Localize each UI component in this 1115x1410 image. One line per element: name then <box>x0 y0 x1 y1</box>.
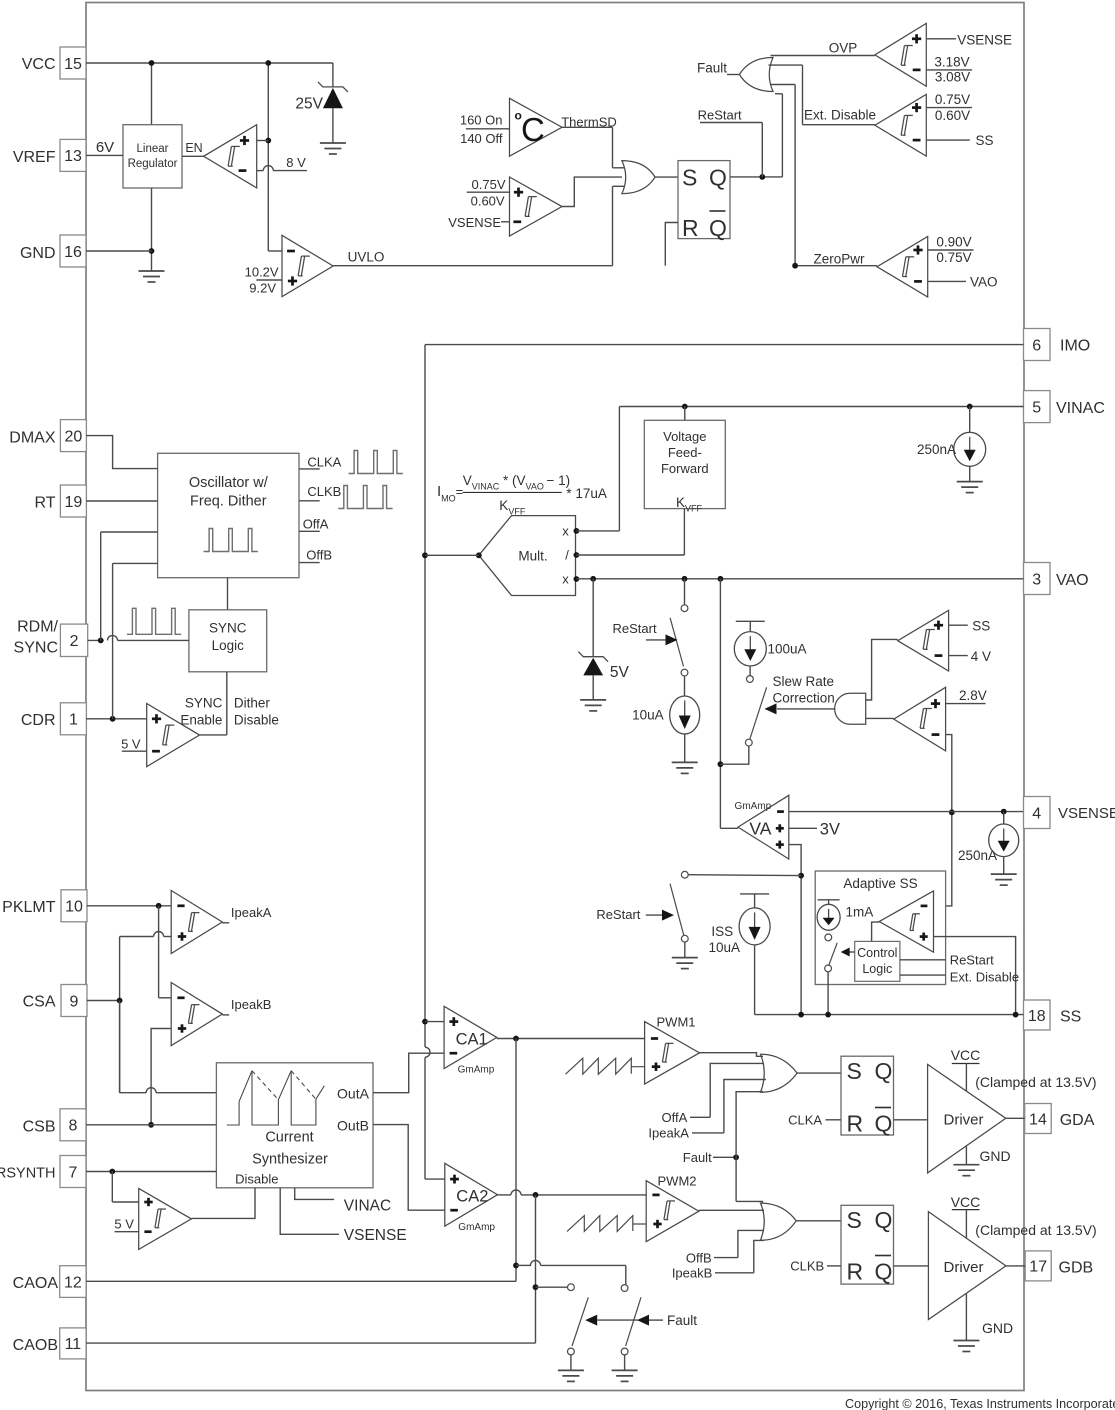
current source 250nA VINAC <box>917 407 986 482</box>
svg-text:3V: 3V <box>820 821 840 839</box>
OR gate fault-out <box>739 58 773 92</box>
waveform sawtooth PWM1 <box>566 1058 645 1074</box>
ground under regulator <box>139 271 165 282</box>
wire CLKB to R2 <box>790 1259 841 1274</box>
current source 1mA <box>817 900 873 941</box>
ground fault A <box>558 1370 584 1381</box>
svg-text:CAOB: CAOB <box>13 1337 58 1354</box>
wire VCC net <box>86 60 333 251</box>
svg-text:13: 13 <box>64 148 82 165</box>
wire IpeakB plus <box>148 1029 171 1128</box>
wire CAOA net <box>86 1280 516 1282</box>
svg-text:Disable: Disable <box>234 713 279 728</box>
wire Fault label <box>697 61 739 76</box>
svg-text:VSENSE: VSENSE <box>448 215 501 230</box>
wire ZeroPwr VAO <box>928 275 998 290</box>
svg-text:EN: EN <box>185 141 202 155</box>
wire control ReStart <box>900 953 994 968</box>
wire KVFF to mult <box>576 509 684 555</box>
adaptive soft start block <box>815 871 945 985</box>
svg-text:Fault: Fault <box>683 1150 712 1165</box>
copyright note <box>845 1397 1115 1410</box>
wire CLKB stub <box>299 484 341 501</box>
svg-text:0.60V: 0.60V <box>935 108 970 123</box>
svg-text:2.8V: 2.8V <box>959 688 987 703</box>
svg-text:1: 1 <box>69 712 78 729</box>
waveform synthesizer <box>227 1071 324 1125</box>
wire OutA to CA1 <box>373 1053 444 1093</box>
svg-text:8: 8 <box>69 1118 78 1135</box>
wire ZeroPwr to OR <box>770 85 795 266</box>
wire AND out arrow <box>765 703 835 714</box>
svg-text:GDB: GDB <box>1059 1260 1094 1277</box>
formula Imo <box>437 473 607 517</box>
comparator PWM1 <box>645 1015 700 1085</box>
pin 14 GDA <box>1025 1104 1095 1134</box>
junction VCC-EN+ <box>265 138 271 144</box>
label 5V rsynth <box>114 1216 138 1231</box>
OR gate PWM1 <box>761 1054 798 1092</box>
wire IpeakA to OR <box>648 1080 766 1141</box>
zener 5V <box>578 579 629 700</box>
svg-text:Voltage: Voltage <box>663 429 706 444</box>
wire GND pin <box>86 250 152 252</box>
pin 17 GDB <box>1025 1251 1093 1281</box>
current source 10uA <box>632 676 700 762</box>
label 2.8V <box>946 688 987 704</box>
svg-text:9: 9 <box>70 993 79 1010</box>
svg-text:GmAmp: GmAmp <box>458 1222 495 1233</box>
svg-text:Logic: Logic <box>862 962 892 976</box>
svg-text:1mA: 1mA <box>846 905 874 920</box>
wire PWM2 to OR <box>699 1209 764 1211</box>
pin 12 CAOA <box>13 1266 86 1298</box>
AND gate slew <box>835 693 866 724</box>
wire CA2 out <box>498 1190 647 1198</box>
ground driver A <box>953 1165 979 1176</box>
svg-text:Q: Q <box>709 215 727 241</box>
wire OffA to OR <box>662 1063 764 1125</box>
wire CLKA stub <box>299 454 342 469</box>
svg-text:VINAC: VINAC <box>344 1198 391 1215</box>
svg-text:OutA: OutA <box>337 1086 370 1102</box>
svg-text:ThermSD: ThermSD <box>561 115 617 130</box>
svg-text:10uA: 10uA <box>708 940 740 955</box>
svg-text:140 Off: 140 Off <box>460 131 503 146</box>
wire ExtDisable to OR <box>769 65 877 125</box>
SYNC logic block <box>189 610 267 672</box>
wire OVP to OR <box>771 41 875 56</box>
svg-text:5 V: 5 V <box>121 737 141 752</box>
pin 15 VCC <box>22 47 86 79</box>
svg-text:RSYNTH: RSYNTH <box>0 1166 56 1182</box>
svg-text:25V: 25V <box>295 96 323 113</box>
wire VSENSE comp output <box>562 177 622 206</box>
wire CSA <box>87 998 123 1093</box>
wire Q1 to driver <box>894 1119 928 1121</box>
pin 9 CSA <box>23 985 87 1017</box>
comparator EN <box>204 125 257 188</box>
wire OR to S <box>655 176 678 178</box>
svg-text:OutB: OutB <box>337 1118 369 1134</box>
wire control ExtDisable <box>900 970 1019 985</box>
svg-text:VAO: VAO <box>1056 572 1089 589</box>
zener 25V <box>295 63 347 143</box>
svg-text:OffA: OffA <box>303 517 329 532</box>
svg-text:* 17uA: * 17uA <box>566 486 607 501</box>
svg-text:PKLMT: PKLMT <box>2 899 56 916</box>
svg-text:8 V: 8 V <box>286 155 306 170</box>
svg-text:Freq. Dither: Freq. Dither <box>190 494 267 510</box>
wire OVP VSENSE <box>926 32 1012 47</box>
wire Q2 to driver <box>894 1265 929 1267</box>
svg-text:GmAmp: GmAmp <box>735 801 772 812</box>
comparator thermal shutdown <box>510 98 563 156</box>
current source 250nA VSENSE <box>958 809 1019 874</box>
wire PKLMT to IpeakB <box>158 906 160 998</box>
svg-text:9.2V: 9.2V <box>249 281 276 296</box>
comparator OVP <box>875 23 926 86</box>
wire VAO to VA <box>718 579 724 829</box>
wire VA output <box>720 827 738 829</box>
svg-text:Copyright © 2016, Texas Instru: Copyright © 2016, Texas Instruments Inco… <box>845 1397 1115 1410</box>
svg-text:15: 15 <box>64 56 82 73</box>
ground under 250nA VINAC <box>957 482 983 493</box>
svg-text:OffB: OffB <box>306 547 332 562</box>
pin 6 IMO <box>1024 329 1091 361</box>
svg-text:Enable: Enable <box>180 713 222 728</box>
label 0.75V 0.60V right <box>926 92 972 123</box>
comparator PWM2 <box>646 1174 699 1242</box>
wire CLKA to R1 <box>788 1113 841 1128</box>
comparator RSYNTH 5V <box>139 1188 192 1249</box>
svg-text:2: 2 <box>70 633 79 650</box>
control logic block <box>855 941 900 981</box>
svg-text:3.08V: 3.08V <box>935 70 970 85</box>
svg-text:GND: GND <box>20 245 56 262</box>
wire CSA to synthesizer <box>120 1088 217 1093</box>
label 3.18V 3.08V <box>926 54 972 84</box>
ground under ReStart SS <box>672 958 698 969</box>
wire 8V input <box>257 155 307 171</box>
driver B <box>928 1212 1006 1320</box>
svg-text:ReStart: ReStart <box>613 621 657 636</box>
svg-text:Driver: Driver <box>944 1112 984 1129</box>
svg-text:GDA: GDA <box>1060 1112 1095 1129</box>
svg-text:VINAC: VINAC <box>1056 400 1105 417</box>
wire OffB to OR <box>686 1230 764 1265</box>
svg-text:20: 20 <box>65 428 83 445</box>
comparator IpeakB <box>171 983 222 1046</box>
switch ReStart VAO <box>613 579 688 676</box>
pin 1 CDR <box>21 703 87 735</box>
svg-text:VCC: VCC <box>22 56 56 73</box>
wire osc to sync <box>227 578 229 610</box>
comparator ZeroPwr <box>877 237 928 298</box>
svg-text:IMO: IMO <box>1060 338 1090 355</box>
svg-text:IpeakB: IpeakB <box>672 1266 712 1281</box>
svg-text:5V: 5V <box>610 664 630 681</box>
pin 3 VAO <box>1024 563 1089 595</box>
wire CA1 out <box>497 1036 645 1042</box>
svg-text:IpeakA: IpeakA <box>231 905 272 920</box>
wire disable <box>191 1188 255 1219</box>
wire CAOB net <box>86 1342 535 1344</box>
svg-text:SYNC: SYNC <box>185 696 223 711</box>
comparator ExtDisable <box>875 94 926 156</box>
svg-text:S: S <box>682 165 697 191</box>
svg-text:IpeakB: IpeakB <box>231 997 271 1012</box>
svg-text:VA: VA <box>749 819 771 839</box>
svg-text:VCC: VCC <box>951 1194 981 1210</box>
comparator 2.8V <box>894 687 946 751</box>
switch 1mA <box>825 943 838 1015</box>
svg-text:10: 10 <box>65 899 83 916</box>
pin 8 CSB <box>23 1109 86 1141</box>
svg-text:Regulator: Regulator <box>128 158 178 170</box>
driver A <box>928 1064 1006 1173</box>
svg-text:CLKA: CLKA <box>307 454 341 469</box>
label clamped A <box>975 1074 1096 1090</box>
SR latch PWM1 <box>841 1056 894 1136</box>
svg-text:VCC: VCC <box>951 1047 981 1063</box>
wire DMAX <box>86 436 158 469</box>
svg-text:Mult.: Mult. <box>518 549 547 564</box>
svg-text:Q: Q <box>875 1259 893 1285</box>
svg-text:ReStart: ReStart <box>596 907 640 922</box>
svg-text:12: 12 <box>64 1274 82 1291</box>
svg-text:Logic: Logic <box>212 638 245 653</box>
pin 20 DMAX <box>9 420 86 452</box>
wire VREF 6V <box>86 139 123 156</box>
svg-text:CAOA: CAOA <box>13 1275 59 1292</box>
wire VA minus VSENSE <box>789 811 1024 813</box>
wire dither disable <box>180 672 279 735</box>
svg-text:16: 16 <box>64 244 82 261</box>
waveform CLKA <box>349 451 403 474</box>
OR gate PWM2 <box>761 1203 797 1240</box>
wire CDR <box>86 563 158 721</box>
wire VCC driver A <box>951 1047 981 1091</box>
svg-text:11: 11 <box>65 1336 82 1353</box>
oscillator block <box>158 453 299 577</box>
wire CSB <box>86 1124 216 1126</box>
svg-text:0.75V: 0.75V <box>935 92 970 107</box>
label 0.90V 0.75V <box>928 235 974 265</box>
wire latch R input <box>665 223 678 266</box>
svg-text:4 V: 4 V <box>971 649 991 664</box>
svg-text:/: / <box>565 548 569 563</box>
svg-text:5 V: 5 V <box>114 1216 134 1231</box>
pin 7 RSYNTH <box>0 1156 86 1188</box>
wire ExtDisable SS <box>926 133 993 148</box>
wire RDM/SYNC <box>88 532 189 643</box>
wire control arrow <box>841 948 855 957</box>
svg-text:GmAmp: GmAmp <box>458 1065 495 1076</box>
svg-text:Forward: Forward <box>661 461 709 476</box>
label VSENSE top <box>448 215 509 230</box>
svg-text:OVP: OVP <box>829 41 858 56</box>
amplifier CA2 <box>445 1163 498 1233</box>
wire ReStart top <box>698 108 763 177</box>
wire EN <box>182 141 204 156</box>
svg-text:(Clamped at 13.5V): (Clamped at 13.5V) <box>975 1222 1096 1238</box>
svg-text:160 On: 160 On <box>460 113 503 128</box>
OR gate fault-set <box>613 161 656 194</box>
wire IpeakB minus <box>159 997 172 999</box>
pin 5 VINAC <box>1024 391 1105 423</box>
label 5V cdr <box>121 737 147 752</box>
svg-text:C: C <box>521 111 545 148</box>
svg-text:VREF: VREF <box>13 149 56 166</box>
waveform sawtooth PWM2 <box>567 1216 646 1232</box>
svg-text:DMAX: DMAX <box>9 430 56 447</box>
SR latch fault <box>678 161 730 241</box>
wire PWM1 to OR <box>700 1053 764 1057</box>
svg-text:14: 14 <box>1029 1111 1047 1128</box>
wire PKLMT <box>87 903 172 909</box>
svg-text:SYNC: SYNC <box>14 640 58 657</box>
svg-text:6: 6 <box>1032 337 1041 354</box>
wire SS4V to AND <box>866 639 898 700</box>
svg-text:3.18V: 3.18V <box>934 54 969 69</box>
SR latch PWM2 <box>841 1205 894 1284</box>
linear regulator block <box>123 125 182 188</box>
svg-text:ReStart: ReStart <box>950 953 994 968</box>
svg-text:Adaptive SS: Adaptive SS <box>843 876 917 891</box>
wire EN+ input <box>257 140 269 142</box>
pin 11 CAOB <box>13 1328 86 1359</box>
wire OutB to CA2 <box>373 1125 445 1211</box>
wire SS label <box>949 619 991 634</box>
wire OffA stub <box>299 517 329 532</box>
switch slew rate <box>720 687 766 764</box>
wire VA plus lower <box>789 845 804 1015</box>
wire GND driver B <box>966 1294 1013 1341</box>
wire IpeakA out <box>222 905 271 923</box>
ground fault B <box>612 1370 638 1381</box>
svg-text:GND: GND <box>982 1320 1013 1336</box>
multiplier block <box>476 516 576 596</box>
svg-text:7: 7 <box>69 1164 78 1181</box>
svg-text:17: 17 <box>1029 1259 1047 1276</box>
svg-text:CA1: CA1 <box>456 1031 488 1049</box>
switch fault A <box>568 1284 589 1371</box>
svg-text:ZeroPwr: ZeroPwr <box>813 251 865 266</box>
wire 2.8V minus net <box>934 735 955 906</box>
label slew rate correction <box>773 674 835 706</box>
svg-text:x: x <box>562 524 569 539</box>
wire RSYNTH comp plus <box>112 1172 138 1203</box>
ground under zener 25V <box>320 143 346 154</box>
pin 4 VSENSE <box>1024 797 1115 829</box>
svg-text:4: 4 <box>1032 805 1041 822</box>
wire RT <box>86 500 158 502</box>
svg-text:(Clamped at 13.5V): (Clamped at 13.5V) <box>975 1074 1096 1090</box>
svg-text:VAO: VAO <box>970 275 998 290</box>
svg-text:Q: Q <box>875 1058 893 1084</box>
svg-text:SS: SS <box>972 619 990 634</box>
label mult ports <box>562 524 579 587</box>
wire Fault to OR1 <box>683 1092 763 1165</box>
wire UVLO output <box>333 186 612 265</box>
svg-text:Oscillator w/: Oscillator w/ <box>189 475 269 491</box>
svg-text:CSB: CSB <box>23 1119 56 1136</box>
wire adaptive plus <box>934 937 1016 1015</box>
svg-text:SYNC: SYNC <box>209 621 247 636</box>
label 0.75V 0.60V top <box>467 177 510 209</box>
wire IpeakA plus <box>120 932 172 1093</box>
svg-text:Ext. Disable: Ext. Disable <box>804 108 876 123</box>
pin 2 RDM/SYNC <box>14 619 88 657</box>
svg-text:Linear: Linear <box>137 143 169 155</box>
svg-text:250nA: 250nA <box>917 442 956 457</box>
pin 10 PKLMT <box>2 890 87 922</box>
wire ZeroPwr line <box>792 251 877 268</box>
comparator UVLO <box>282 235 333 296</box>
wire CA2 to CAOB <box>533 1195 539 1343</box>
svg-text:VSENSE: VSENSE <box>344 1227 407 1244</box>
svg-text:Current: Current <box>265 1130 313 1146</box>
wire 2.8V comp to AND <box>866 717 894 719</box>
ground under zener 5V <box>580 700 606 711</box>
svg-text:0.90V: 0.90V <box>936 235 971 250</box>
svg-text:10.2V: 10.2V <box>245 264 279 279</box>
svg-text:Dither: Dither <box>234 696 271 711</box>
svg-text:CLKB: CLKB <box>790 1259 824 1274</box>
wire VCC driver B <box>951 1194 981 1238</box>
svg-text:S: S <box>847 1207 862 1233</box>
ground driver B <box>953 1341 979 1352</box>
svg-text:OffB: OffB <box>686 1251 712 1266</box>
wire RSYNTH <box>86 1169 216 1175</box>
comparator SS 4V <box>898 610 949 671</box>
ground under 10uA <box>672 762 698 773</box>
wire OffB stub <box>299 547 332 562</box>
switch ReStart SS <box>596 871 688 957</box>
pin 19 RT <box>34 485 86 517</box>
wire GND driver A <box>966 1146 1010 1165</box>
svg-text:CSA: CSA <box>23 994 56 1011</box>
wire CA1 branch to switch <box>516 1260 626 1284</box>
wire 4V label <box>949 649 991 664</box>
voltage feed-forward block <box>644 420 725 513</box>
wire GDA <box>1006 1117 1025 1119</box>
svg-text:RDM/: RDM/ <box>17 619 58 636</box>
svg-text:VSENSE: VSENSE <box>957 32 1012 47</box>
svg-text:10uA: 10uA <box>632 708 664 723</box>
comparator adaptive SS <box>879 891 933 952</box>
svg-text:100uA: 100uA <box>768 642 807 657</box>
label 160On 140Off <box>460 113 510 146</box>
svg-text:RT: RT <box>34 495 55 512</box>
svg-text:CLKA: CLKA <box>788 1113 822 1128</box>
wire CA1 plus <box>425 1021 444 1023</box>
svg-text:19: 19 <box>65 494 83 511</box>
pin 18 SS <box>1024 1000 1082 1030</box>
svg-text:5: 5 <box>1032 399 1041 416</box>
svg-text:Correction: Correction <box>773 691 835 706</box>
svg-text:PWM1: PWM1 <box>657 1015 696 1030</box>
svg-text:Driver: Driver <box>944 1259 984 1276</box>
amplifier VA <box>735 795 789 859</box>
svg-text:S: S <box>847 1058 862 1084</box>
svg-text:Fault: Fault <box>667 1313 697 1328</box>
ground under 250nA VSENSE <box>991 874 1017 885</box>
wire SS net <box>755 1012 1024 1018</box>
svg-text:Synthesizer: Synthesizer <box>252 1152 328 1168</box>
comparator IpeakA <box>171 891 222 954</box>
